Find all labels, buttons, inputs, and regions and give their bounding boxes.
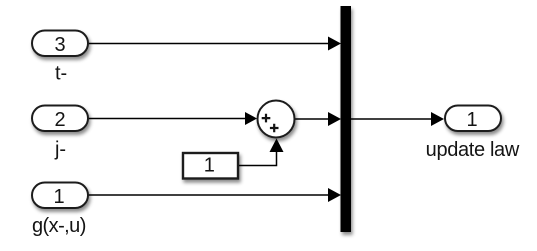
svg-text:t-: t- xyxy=(55,63,67,85)
svg-text:1: 1 xyxy=(53,186,64,208)
svg-text:g(x-,u): g(x-,u) xyxy=(32,215,86,237)
svg-text:3: 3 xyxy=(54,34,65,56)
svg-text:2: 2 xyxy=(54,109,65,131)
svg-text:j-: j- xyxy=(54,138,66,160)
svg-text:1: 1 xyxy=(204,154,215,176)
svg-text:update law: update law xyxy=(426,139,520,161)
svg-text:1: 1 xyxy=(466,109,477,131)
